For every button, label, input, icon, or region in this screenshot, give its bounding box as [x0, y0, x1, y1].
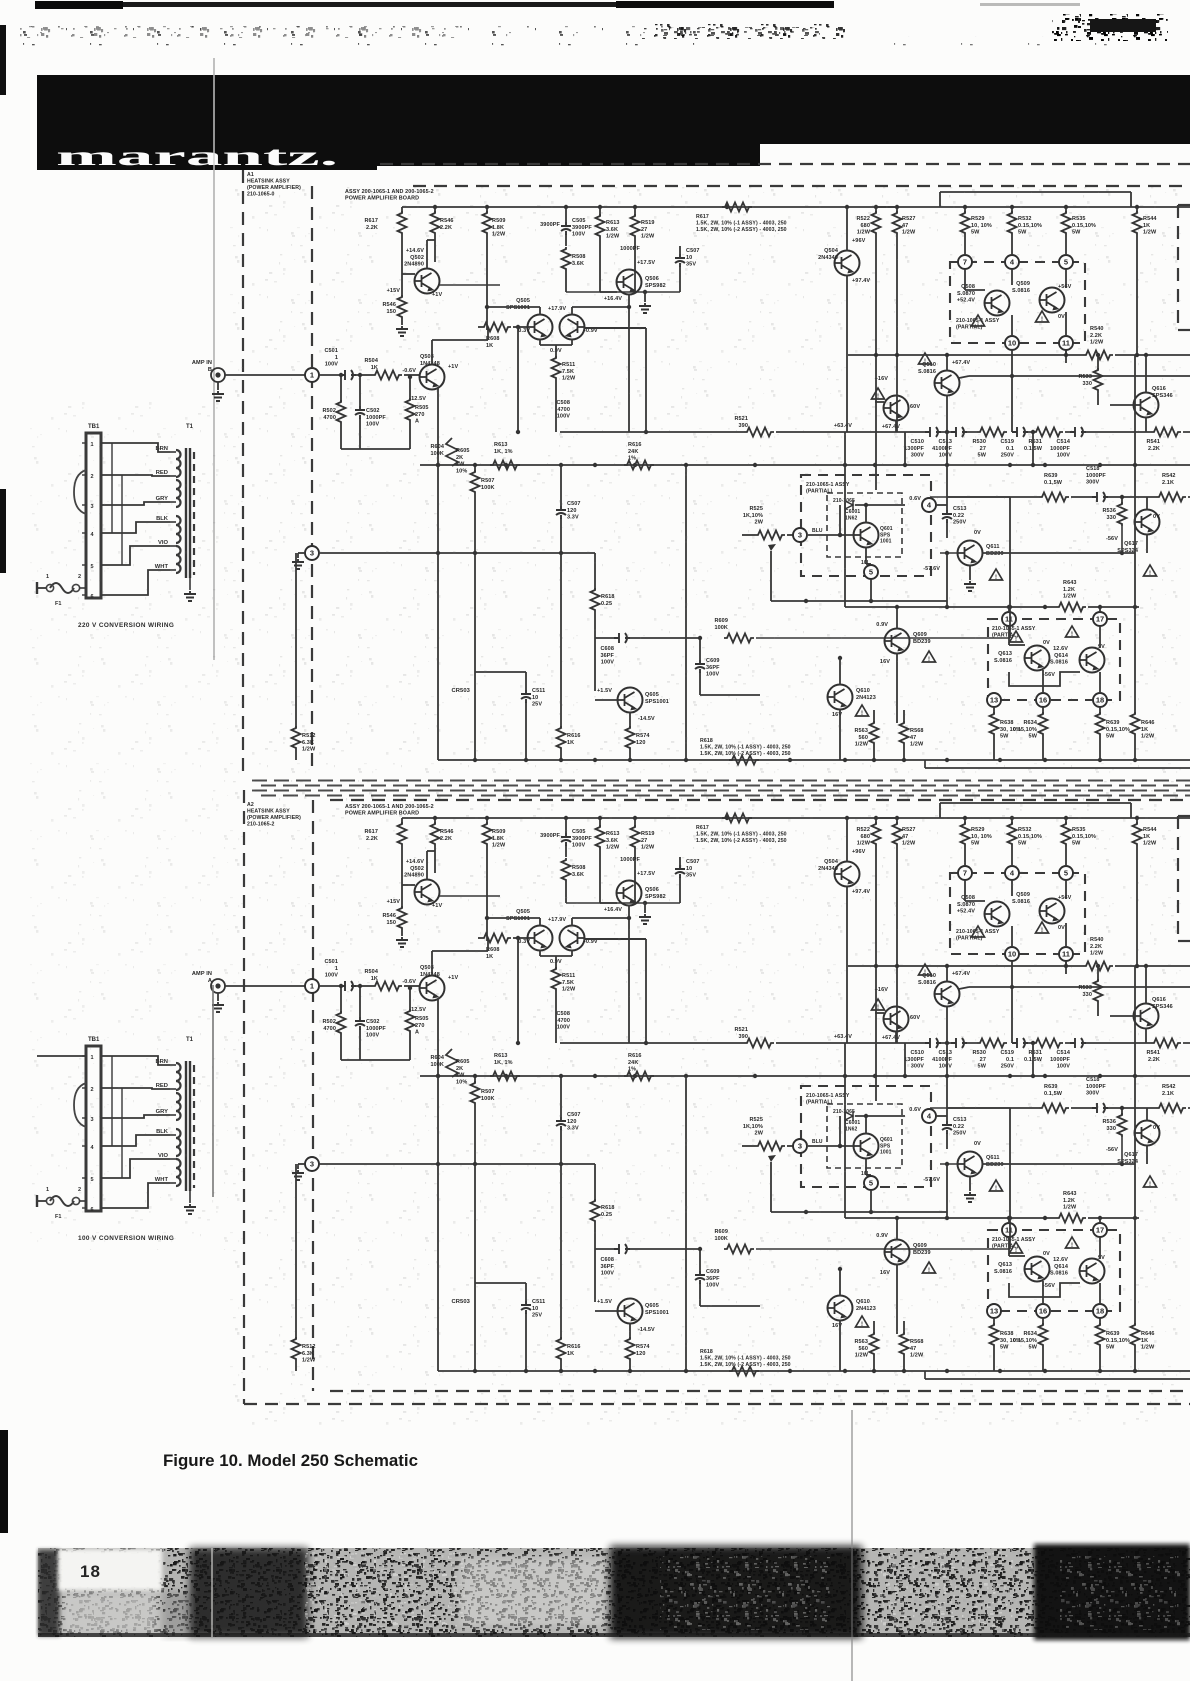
pin 17 SB3 [1093, 612, 1107, 626]
node 1 on board edge [305, 368, 319, 382]
pin 4 [1005, 255, 1019, 269]
wire Q605 emitter [629, 712, 631, 728]
wires SB2 internal [808, 1145, 854, 1147]
wire +65V supply rail (channel 6) [402, 817, 1190, 819]
wire R525 feedback drop [770, 1162, 772, 1212]
resistor R507 1.8K 1/2W [486, 207, 488, 213]
resistor R643b 1.2K inline bus [1056, 1214, 1086, 1223]
node 3 on board edge [305, 1157, 319, 1171]
transistor Q651 in SB2 [854, 1134, 879, 1159]
wires Q508b/Q510 [895, 1031, 897, 1043]
transistor Q655 SPS1001 lower [618, 1299, 643, 1324]
resistor R521 390 inline [744, 428, 774, 437]
resistor R538 30 10% [993, 707, 995, 714]
resistor R505 270 [409, 377, 411, 400]
sub-assembly box 210-1065-1 (middle) [801, 1086, 931, 1187]
ground under Q611 [969, 565, 971, 580]
connector AMP IN jack [211, 979, 225, 993]
resistor R546 150 + ground [401, 274, 403, 297]
resistor R622 680 1/2W [875, 818, 877, 824]
resistor R619 27 1/2W [634, 818, 636, 827]
warning triangle under Q611 [990, 569, 1003, 581]
capacitor C607 10 35V + ground [566, 902, 680, 904]
pin 18 SB3 [1093, 693, 1107, 707]
wire mains line channel2 [37, 1055, 86, 1057]
resistor R631 0.1 5W inline [1033, 1039, 1063, 1048]
wire long vertical x438 [437, 1076, 439, 1371]
resistor R516 24K 1% inline bus B [624, 461, 654, 470]
wires Q508b/Q510 [895, 420, 897, 432]
channel separator dashed band [252, 780, 1190, 782]
wire Q605 base [595, 699, 618, 701]
resistor R646b 1K 1/2W [1134, 1218, 1136, 1325]
svg-text:B: B [208, 367, 212, 373]
transistor Q506 SPS982 [617, 270, 642, 295]
warning triangle in SB1 [972, 926, 985, 938]
capacitor C611 10 25V [521, 1301, 531, 1314]
TB1 bracket [74, 470, 86, 514]
resistor R508b 1K base [478, 326, 481, 328]
pin 11 SB3 [1002, 612, 1016, 626]
wire Q617 links [1146, 497, 1148, 510]
wire pair collectors [539, 307, 541, 315]
wire fuse to TB1 [79, 587, 86, 589]
transistor Q602 2N4890 [415, 880, 440, 905]
resistor R633 330 [1097, 966, 1099, 981]
resistor R627 47 1/2W [896, 818, 898, 824]
diode CR601 1N62 [839, 1116, 841, 1146]
resistor R602 4700 [337, 1011, 346, 1035]
wires SB1 internal [964, 880, 966, 901]
ground under C507 net [644, 903, 646, 913]
wire long vertical x561 [560, 553, 562, 728]
node 3 on board edge [305, 546, 319, 560]
capacitor C560 36PF lower [699, 638, 701, 660]
node 1 on board edge [305, 979, 319, 993]
wire Q502 collector/base [401, 248, 403, 274]
scan streak top edge [35, 2, 830, 7]
capacitor C609 on bus A [925, 1038, 941, 1048]
header black banner [37, 75, 1190, 144]
capacitor C505 3900PF 100V [565, 207, 567, 222]
transistor Q611 BD239 output [958, 1152, 983, 1177]
rectifier CR503 block [475, 1282, 526, 1284]
capacitor C660 36PF lower [699, 1249, 701, 1271]
resistor R503 2.2K [434, 207, 436, 213]
left edge mark middle [0, 489, 6, 573]
inner dashed box [827, 493, 902, 557]
transistor Q555 SPS1001 lower [618, 688, 643, 713]
wire upper parallel rail [940, 191, 1131, 193]
transistor Q613 S.0816 in SB3 [1025, 1257, 1050, 1282]
wire bus y355 right [848, 354, 1083, 356]
resistor R609 100K inline [724, 1245, 754, 1254]
resistor R646 150 + ground [401, 885, 403, 908]
wire long vertical x438 [437, 465, 439, 760]
resistor R539c 0.1 5W inline [1039, 493, 1069, 502]
svg-text:AMP IN: AMP IN [192, 360, 212, 366]
resistor R515 1K [560, 727, 562, 729]
scan blob top right [1052, 14, 1168, 41]
pin 4 [1005, 866, 1019, 880]
wire Q506 base link [600, 291, 617, 293]
wire crossing loop b [121, 1088, 123, 1178]
wire Q609 vertical [896, 607, 898, 629]
resistor R676 inline bottom bus [729, 1367, 759, 1376]
resistor R502 4700 [337, 400, 346, 424]
wire TB1 pin6 to WHT [101, 570, 170, 595]
svg-text:18: 18 [80, 1562, 101, 1581]
capacitor C511 10 25V [521, 690, 531, 703]
warning triangle near Q610 [856, 1316, 869, 1328]
pin 5 [1059, 255, 1073, 269]
wire TB1 pin3 to GRY [101, 502, 170, 505]
resistor R608b 1K base [478, 937, 481, 939]
wire Q507 base feedback line [584, 327, 646, 329]
wire x947 upper [946, 432, 948, 497]
pin 4 SB2 output [922, 1109, 936, 1123]
wire bottom bus [438, 759, 1190, 761]
wires SB3 internal [1008, 626, 1010, 645]
wire +65V supply rail (channel 5) [402, 206, 1190, 208]
warning triangle in SB1 [972, 315, 985, 327]
wire Q507 base feedback line [584, 938, 646, 940]
pin 5 [1059, 866, 1073, 880]
ground T1 core [189, 1191, 191, 1203]
pin 10 [1005, 947, 1019, 961]
resistor R614 1K 1% inline bus B [490, 1072, 520, 1081]
wire TB1 pin1 to BRN [101, 443, 170, 452]
wire input line [225, 374, 305, 376]
capacitor C501 1 100V [340, 370, 356, 380]
scan fold vertical lower [212, 985, 214, 1197]
wire TB1 pin4 to BLK [101, 522, 170, 533]
transistor Q514 in SB3 [1080, 648, 1105, 673]
transistor Q503 input 1N4248 [420, 365, 445, 390]
wire Q506 emitter drop [628, 294, 630, 432]
A1 heatsink boundary dashed [242, 170, 244, 775]
warning triangle under Q617 [1144, 1176, 1157, 1188]
warning triangle above Q508b [872, 388, 885, 400]
capacitor C510 4100PF [951, 427, 967, 437]
warning triangle above Q510 [919, 964, 932, 976]
scan speckle band [8, 18, 698, 48]
resistor R541 2.2K inline [1151, 428, 1181, 437]
connector AMP IN jack [211, 368, 225, 382]
resistor R608 3.6K [562, 858, 571, 882]
wire x845 drop [844, 432, 846, 607]
transistor Q551 in SB2 [854, 523, 879, 548]
resistor R641 2.2K inline [1151, 1039, 1181, 1048]
wire x1010 vertical [1009, 497, 1011, 638]
svg-text:Figure 10. Model 250 Schemati: Figure 10. Model 250 Schematic [163, 1451, 418, 1470]
wire Q503 emitter down [437, 999, 439, 1076]
warning triangle under Q617 [1144, 565, 1157, 577]
wire Q605 emitter [629, 1323, 631, 1339]
wire Q510 emitter to y376 line [959, 987, 969, 989]
resistor R647 100K [474, 1076, 476, 1083]
transistor Q610 S.0816 [935, 982, 960, 1007]
resistor R615 1K [560, 1338, 562, 1340]
TB1 bracket [74, 1083, 86, 1127]
terminal block TB1 [86, 1046, 101, 1211]
wire x1033 top drop [1032, 1043, 1034, 1076]
wire crossing loop a [111, 1056, 113, 1146]
resistor R621 390 inline [744, 1039, 774, 1048]
ground at node 3 [298, 552, 305, 554]
wire TB1 pin1 to BRN [101, 1056, 170, 1065]
resistor R522 680 1/2W [875, 207, 877, 213]
wire pair emitters [539, 339, 541, 345]
capacitor C610 4100PF [951, 1038, 967, 1048]
sub-assembly box 210-1065-1 (bottom right) [988, 619, 1120, 700]
wire x947 drop [946, 553, 948, 607]
sub-assembly box 210-1065-1 (bottom right) [988, 1230, 1120, 1311]
pin 13 SB3 [987, 693, 1001, 707]
resistor R610 2K 2W bias [446, 1049, 458, 1077]
wire long vertical x475 [474, 560, 476, 672]
diode CR601 1N62 [839, 505, 841, 535]
capacitor C514 1000PF [1070, 427, 1086, 437]
resistor R514 1K 1% inline bus B [490, 461, 520, 470]
transistor Q609 S.0816 in box [1040, 899, 1065, 924]
pin 17 SB3 [1093, 1223, 1107, 1237]
resistor R576 inline bottom bus [729, 756, 759, 765]
wire Q502 to Q506 base [439, 284, 500, 286]
resistor R544 1K 1/2W [1136, 207, 1138, 213]
wire bus y607 [845, 606, 1056, 608]
wire Q506 base link [600, 902, 617, 904]
sub-assembly box 210-1065-1 (top right) [950, 873, 1085, 954]
wire x845 drop [844, 1043, 846, 1218]
fold line over banner [213, 75, 215, 170]
capacitor C619 0.1 250V [1012, 1038, 1028, 1048]
resistor R612 6.3K 1/2W [292, 1337, 301, 1361]
resistor R517 1.5K 2W inline rail [722, 203, 752, 212]
transistor Q508b BD239 driver [884, 396, 909, 421]
wire Q609 vertical [896, 1218, 898, 1240]
pin 10 [1005, 336, 1019, 350]
wire bus B y465 [420, 1075, 1190, 1077]
A2 heatsink boundary dashed [243, 790, 245, 1404]
wire base junction to bus A [517, 327, 519, 432]
capacitor C508 36PF 100V [595, 637, 614, 639]
pin 11 [1059, 947, 1073, 961]
wire long vertical x296 [295, 553, 297, 728]
warning triangle near Q610 [856, 705, 869, 717]
pin 3 SB2 [793, 1139, 807, 1153]
wire x1010 vertical [1009, 1108, 1011, 1249]
resistor R617 1.5K 2W inline rail [722, 814, 752, 823]
warning triangle under Q611 [990, 1180, 1003, 1192]
wire TB1 pin4 to BLK [101, 1135, 170, 1146]
wire x1100/x1135 segments [1134, 355, 1136, 607]
resistor R542 2.1K inline [1156, 493, 1186, 502]
warning triangle near Q609 [923, 651, 936, 663]
wire bus y355 right [848, 965, 1083, 967]
resistor R547 100K [474, 465, 476, 472]
partial sub-box at right edge [1178, 815, 1190, 817]
wire Q503 emitter down [437, 388, 439, 465]
resistor R546b 1K 1/2W [1134, 607, 1136, 714]
resistor R630 27 5W inline [977, 1039, 1007, 1048]
wire pair collectors [539, 918, 541, 926]
wire node3 line [319, 1163, 595, 1165]
transistor Q609b BD239 [885, 1240, 910, 1265]
wire node3 line [319, 552, 595, 554]
resistor R625 1K 10% 2W [742, 1145, 755, 1147]
transistor Q505 SPS982 [528, 315, 553, 340]
resistor R540 2.2K 1/2W inline [1083, 351, 1113, 360]
transistor Q509b BD239 [885, 629, 910, 654]
transformer T1 core [185, 1061, 187, 1191]
transistor Q520 2N4123 [828, 685, 853, 710]
wire bottom bus [438, 1370, 1190, 1372]
transformer T1 core [185, 448, 187, 578]
wire Q506 emitter drop [628, 905, 630, 1043]
wire Q605 base [595, 1310, 618, 1312]
resistor R533 330 [1097, 355, 1099, 370]
pin 4 SB2 output [922, 498, 936, 512]
wires SB3 internal [1008, 1237, 1010, 1256]
resistor R512 6.3K 1/2W [292, 726, 301, 750]
fuse F1 [50, 1196, 74, 1206]
wire bus B y465 [420, 464, 1190, 466]
resistor R613 3.6K 1/2W [599, 818, 601, 827]
wire fuse to TB1 [79, 1200, 86, 1202]
pin 3 SB2 [793, 528, 807, 542]
resistor R604 1K [372, 982, 402, 991]
transistor Q605 SPS982 [528, 926, 553, 951]
wire input branch down [340, 986, 342, 1013]
transistor Q513 S.0816 in SB3 [1025, 646, 1050, 671]
left edge mark top [0, 25, 6, 95]
resistor R543b 1.2K inline bus [1056, 603, 1086, 612]
capacitor C617 120 3.3V [560, 1111, 562, 1117]
inner dashed box [827, 1104, 902, 1168]
pin 18 SB3 [1093, 1304, 1107, 1318]
rectifier CR503 block [475, 671, 526, 673]
ground at AMP IN [217, 382, 219, 390]
wire TB1 pin5 to VIO [101, 546, 170, 565]
wire long vertical x686 [685, 465, 687, 760]
ground T1 core [189, 578, 191, 590]
terminal block TB1 [86, 433, 101, 598]
resistor R638 30 10% [993, 1318, 995, 1325]
transformer T1 primary coils [176, 450, 181, 477]
wire x1033 top drop [1032, 432, 1034, 465]
resistor R636 330 vertical [1121, 1108, 1123, 1115]
pin 11 [1059, 336, 1073, 350]
wire pins 10/11 drop [1011, 961, 1013, 1043]
wire x947 drop [946, 1164, 948, 1218]
wire x905 drop [904, 1043, 906, 1076]
wire bus y497 right [947, 496, 1039, 498]
resistor R574 120 [626, 726, 635, 750]
wire R502/C502 join [341, 1059, 410, 1061]
resistor R510 2K 2W bias [446, 438, 458, 466]
svg-text:A1: A1 [247, 172, 254, 178]
capacitor C519 0.1 250V [1012, 427, 1028, 437]
wire Q611 base from SB2 [940, 552, 958, 554]
resistor R674 120 [626, 1337, 635, 1361]
pin 11 SB3 [1002, 1223, 1016, 1237]
pin 13 SB3 [987, 1304, 1001, 1318]
resistor R634 0.15 10% [1042, 1318, 1044, 1325]
wire Q510 emitter to y376 line [959, 376, 969, 378]
resistor R605 270 [409, 988, 411, 1011]
wire crossing loop b [121, 475, 123, 565]
resistor R639c 0.1 5W inline [1039, 1104, 1069, 1113]
warning triangle in SB1 b [1036, 922, 1049, 934]
resistor R518 0.25 [594, 553, 596, 590]
transistor Q516 SPS346 [1134, 393, 1159, 418]
transistor Q620 2N4123 [828, 1296, 853, 1321]
wire Q504 vertical [846, 818, 848, 862]
wire long vertical x686 [685, 1076, 687, 1371]
wire input branch down [340, 375, 342, 402]
ground under C507 net [644, 292, 646, 302]
wire pair emitters [539, 950, 541, 956]
ground at node 3 [298, 1163, 305, 1165]
capacitor C509 on bus A [925, 427, 941, 437]
wire TB1 pin3 to GRY [101, 1115, 170, 1118]
transistor Q616 SPS346 [1134, 1004, 1159, 1029]
ground at AMP IN [217, 993, 219, 1001]
wire Q504 vertical [846, 207, 848, 251]
warning triangle SB3 a [1010, 1242, 1023, 1254]
wire x1066 SB1 to bus [1099, 1218, 1101, 1223]
resistor R527 47 1/2W [896, 207, 898, 213]
resistor R629 10 10% 5W [964, 818, 966, 824]
board box channel2 dashed [312, 800, 314, 1391]
capacitor C601 1 100V [340, 981, 356, 991]
resistor R644 1K 1/2W [1136, 818, 1138, 824]
pin 7 [958, 866, 972, 880]
wire x905 drop [904, 432, 906, 465]
transistor Q608b BD239 driver [884, 1007, 909, 1032]
resistor R530 27 5W inline [977, 428, 1007, 437]
resistor R632 0.15 10% 5W [1011, 818, 1013, 824]
warning triangle SB3 a [1010, 631, 1023, 643]
transistor Q617 SPS324 [1135, 1121, 1160, 1146]
capacitor C517 120 3.3V [560, 500, 562, 506]
warning triangle in SB1 b [1036, 311, 1049, 323]
capacitor C608 36PF 100V [595, 1248, 614, 1250]
resistor R529 10 10% 5W [964, 207, 966, 213]
resistor R603 2.2K [434, 818, 436, 824]
pin 16 SB3 [1036, 1304, 1050, 1318]
resistor R663 560 / R668 47 [873, 1321, 875, 1334]
transformer T1 primary coils [176, 1063, 181, 1090]
resistor R504 1K [372, 371, 402, 380]
warning triangle above Q510 [919, 353, 932, 365]
left edge mark lower [0, 1430, 8, 1533]
wire crossing loop a [111, 443, 113, 533]
capacitor C613 0.22 250V [946, 1108, 948, 1121]
warning triangle SB3 b [1066, 626, 1079, 638]
wire long vertical x475 [474, 1171, 476, 1283]
wire TB1 pin2 to RED [101, 1088, 170, 1089]
resistor R509 100K inline [724, 634, 754, 643]
resistor R534 0.15 10% [1042, 707, 1044, 714]
wire return line below bottom bus [925, 767, 1190, 769]
resistor R563 560 / R568 47 [873, 710, 875, 723]
board box channel1 dashed [311, 186, 313, 772]
capacitor C605 3900PF 100V [565, 818, 567, 833]
wire long vertical x296 [295, 1164, 297, 1339]
transistor Q502 2N4890 [415, 269, 440, 294]
